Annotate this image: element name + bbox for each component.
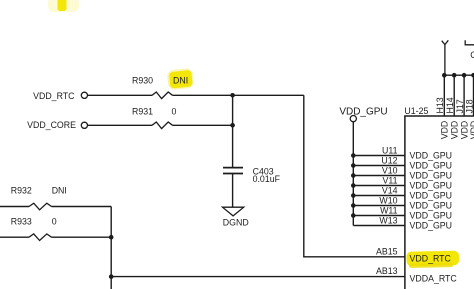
wire down right side to AB15 bbox=[304, 95, 405, 256]
junction node H13 bbox=[442, 73, 447, 78]
highlighter mark VDD_RTC pin bbox=[406, 251, 459, 268]
wire pin stub W13 bbox=[353, 225, 405, 227]
svg-text:W13: W13 bbox=[379, 215, 397, 225]
wire pin stub V11 bbox=[353, 185, 405, 187]
svg-text:VDD_RTC: VDD_RTC bbox=[33, 91, 75, 101]
svg-text:VDD_GPU: VDD_GPU bbox=[410, 181, 453, 191]
svg-text:VDD_GPU: VDD_GPU bbox=[410, 151, 453, 161]
svg-text:VDD_RTC: VDD_RTC bbox=[410, 254, 452, 264]
capacitor C403 bbox=[223, 168, 243, 174]
highlighter mark top edge bbox=[48, 0, 79, 12]
op IC U1 block outline bbox=[405, 116, 474, 289]
svg-text:DNI: DNI bbox=[173, 76, 188, 86]
wire top pin J18 bbox=[473, 75, 474, 116]
junction node W11 bbox=[351, 213, 356, 218]
wire pin stub V10 bbox=[353, 175, 405, 177]
wire top pin H14 bbox=[453, 75, 455, 116]
wire top pin J17 bbox=[463, 75, 465, 116]
port circle VDD_CORE bbox=[81, 122, 87, 128]
svg-text:C4: C4 bbox=[470, 50, 474, 60]
junction node J17 bbox=[462, 73, 467, 78]
resistor R933 bbox=[0, 236, 29, 238]
svg-text:V10: V10 bbox=[382, 165, 398, 175]
junction node V11 bbox=[351, 183, 356, 188]
svg-text:VDD_CORE: VDD_CORE bbox=[27, 120, 76, 130]
svg-text:VDD: VDD bbox=[450, 121, 460, 140]
svg-text:W11: W11 bbox=[380, 205, 398, 215]
svg-text:AB13: AB13 bbox=[376, 266, 398, 276]
svg-text:VDD: VDD bbox=[440, 121, 450, 140]
svg-text:R930: R930 bbox=[132, 76, 153, 86]
wire pin stub U11 bbox=[353, 155, 405, 157]
highlighter mark DNI (R930) bbox=[167, 68, 195, 91]
svg-text:0: 0 bbox=[172, 107, 177, 117]
resistor R931 bbox=[152, 122, 173, 129]
svg-text:W10: W10 bbox=[379, 195, 397, 205]
wire VDD_RTC to R931 left bbox=[88, 94, 153, 96]
svg-text:H13: H13 bbox=[435, 97, 445, 113]
junction node V10 bbox=[351, 173, 356, 178]
svg-text:VDD_GPU: VDD_GPU bbox=[339, 107, 387, 118]
wire pin stub W10 bbox=[353, 205, 405, 207]
svg-text:U1-25: U1-25 bbox=[404, 106, 428, 116]
junction node AB13 wire bbox=[109, 274, 114, 279]
port circle VDD_GPU bbox=[350, 116, 356, 122]
junction node U11 bbox=[351, 153, 356, 158]
svg-text:R933: R933 bbox=[11, 216, 32, 226]
svg-text:0: 0 bbox=[52, 216, 57, 226]
svg-text:0.01uF: 0.01uF bbox=[253, 174, 281, 184]
svg-text:VDD_GPU: VDD_GPU bbox=[410, 191, 453, 201]
wire VDD_GPU bus vertical bbox=[352, 122, 354, 226]
wire pin stub U12 bbox=[353, 165, 405, 167]
svg-text:VDD: VDD bbox=[469, 121, 474, 140]
resistor R932 bbox=[0, 206, 29, 208]
svg-text:V14: V14 bbox=[382, 185, 398, 195]
resistor R930 bbox=[152, 92, 173, 99]
svg-text:R932: R932 bbox=[11, 186, 32, 196]
wire to AB13 bbox=[111, 276, 405, 278]
wire C403 to ground bbox=[232, 174, 234, 208]
svg-text:VDD_GPU: VDD_GPU bbox=[410, 211, 453, 221]
wire vertical to C403 bbox=[232, 95, 234, 167]
svg-text:AB15: AB15 bbox=[376, 246, 398, 256]
svg-text:VDD_GPU: VDD_GPU bbox=[410, 221, 453, 231]
svg-text:VDD_GPU: VDD_GPU bbox=[410, 201, 453, 211]
svg-text:U11: U11 bbox=[382, 145, 398, 155]
svg-text:DNI: DNI bbox=[52, 186, 67, 196]
svg-text:VDD_GPU: VDD_GPU bbox=[410, 171, 453, 181]
junction node J18 bbox=[471, 73, 474, 78]
svg-text:U12: U12 bbox=[381, 155, 397, 165]
wire VDD_CORE to R931 bbox=[88, 124, 153, 126]
junction node H14 bbox=[452, 73, 457, 78]
wire pin stub W11 bbox=[353, 215, 405, 217]
wire vertical R932 bus bbox=[110, 207, 112, 289]
junction node U12 bbox=[351, 163, 356, 168]
off-page stub Y symbol bbox=[442, 40, 449, 75]
wire pin stub V14 bbox=[353, 195, 405, 197]
svg-text:DGND: DGND bbox=[223, 217, 249, 227]
wire top pin H13 bbox=[443, 75, 445, 116]
svg-text:VDD_GPU: VDD_GPU bbox=[410, 161, 453, 171]
svg-text:V11: V11 bbox=[383, 175, 398, 185]
partial symbol top-right corner bbox=[465, 40, 474, 45]
junction node V14 bbox=[351, 193, 356, 198]
junction node row1/cap bbox=[230, 93, 235, 98]
port circle VDD_RTC bbox=[81, 92, 87, 98]
svg-text:R931: R931 bbox=[132, 107, 153, 117]
svg-text:H14: H14 bbox=[445, 97, 455, 113]
svg-text:J18: J18 bbox=[464, 99, 474, 113]
junction node W10 bbox=[351, 203, 356, 208]
wire R930 right to corner bbox=[173, 94, 304, 96]
junction node row2/cap bbox=[230, 123, 235, 128]
svg-text:VDDA_RTC: VDDA_RTC bbox=[410, 274, 458, 284]
wire top bus bbox=[444, 74, 474, 76]
junction node R933/vertical bbox=[109, 235, 114, 240]
wire R931 right to vertical bbox=[173, 124, 233, 126]
ground DGND bbox=[223, 207, 244, 216]
